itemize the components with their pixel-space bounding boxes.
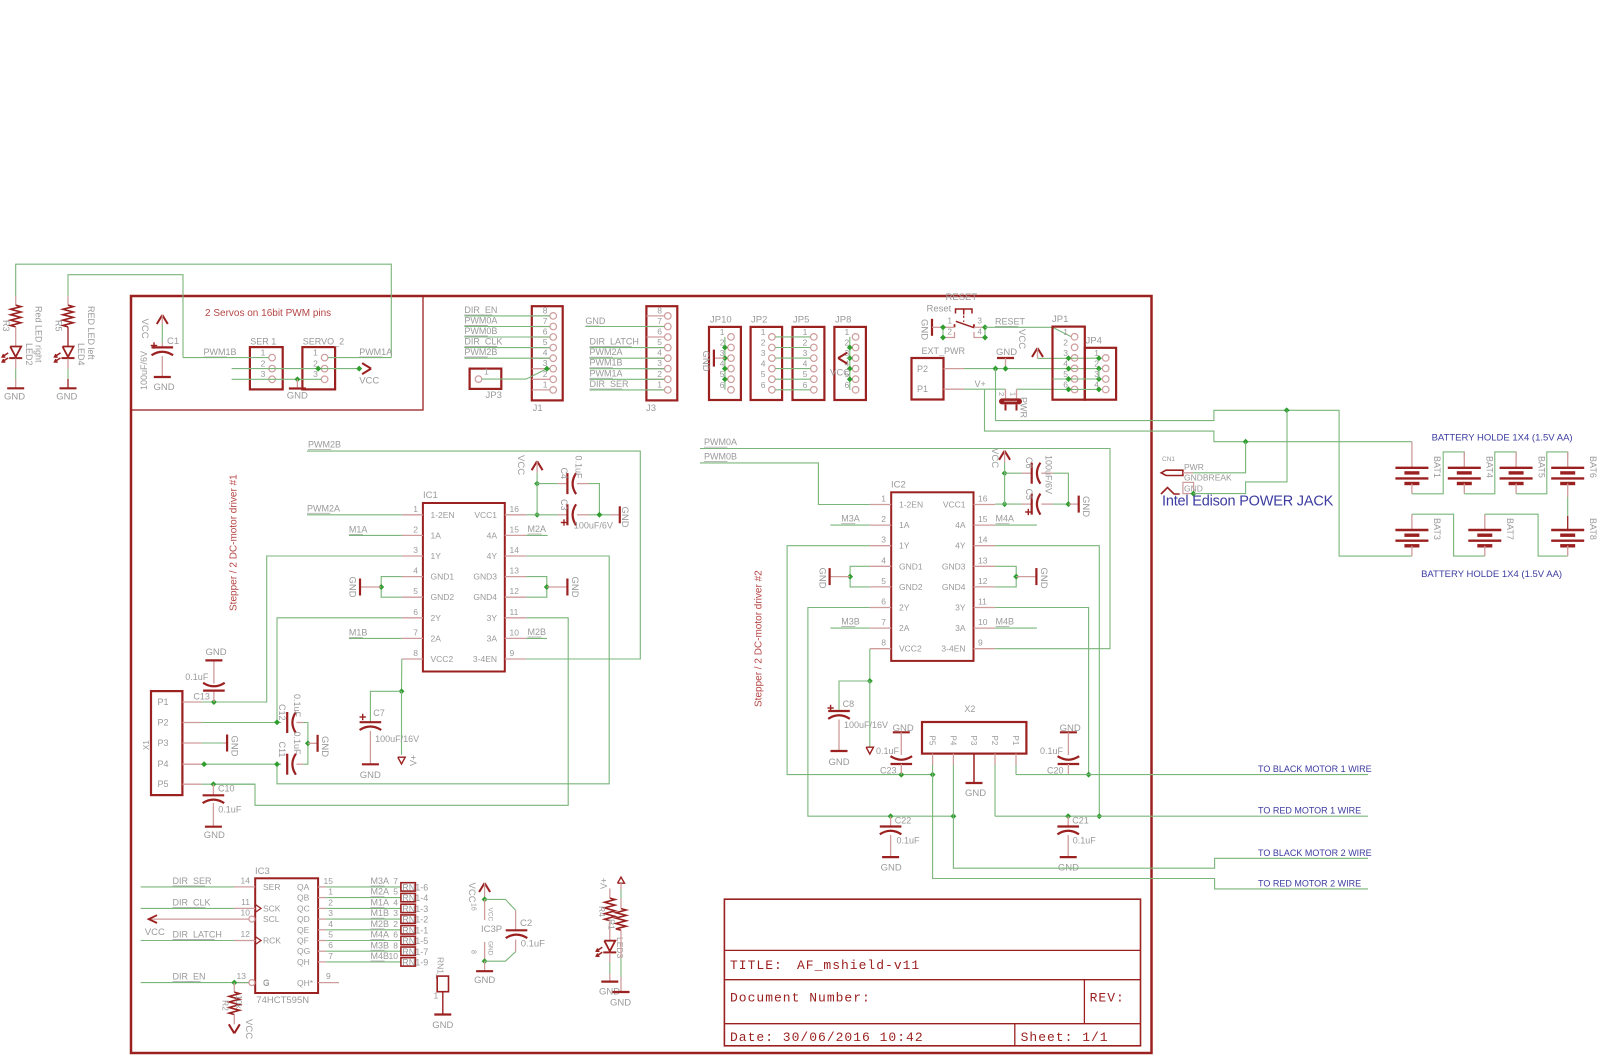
svg-text:TO BLACK MOTOR 2 WIRE: TO BLACK MOTOR 2 WIRE <box>1258 848 1372 858</box>
svg-text:100uF/16V: 100uF/16V <box>375 734 419 744</box>
schematic frame <box>131 296 1152 1053</box>
ground C5 C6 <box>1069 503 1079 505</box>
svg-text:6: 6 <box>328 940 333 950</box>
wire line2 to red motor 1 <box>995 815 1368 817</box>
svg-text:GNDBREAK: GNDBREAK <box>1184 473 1232 483</box>
svg-text:8: 8 <box>543 305 548 315</box>
wire M4A to RN1 <box>326 940 401 942</box>
svg-text:M1B: M1B <box>371 908 390 918</box>
ic IC2 <box>891 492 973 661</box>
svg-text:13: 13 <box>978 555 988 565</box>
svg-text:Stepper / 2 DC-motor driver #1: Stepper / 2 DC-motor driver #1 <box>229 474 240 611</box>
wire X2 P5 to red motor 2 <box>933 775 1368 889</box>
svg-text:12: 12 <box>510 586 520 596</box>
wire V+ net to batteries <box>985 389 1412 442</box>
svg-text:1: 1 <box>720 327 725 337</box>
wire BAT7 top link <box>1485 514 1568 556</box>
svg-text:0.1uF: 0.1uF <box>1073 836 1097 846</box>
wire GND net to batteries <box>996 369 1412 556</box>
svg-text:0.1uF: 0.1uF <box>574 456 584 480</box>
svg-text:1: 1 <box>413 504 418 514</box>
svg-text:V+: V+ <box>599 878 609 889</box>
svg-text:4: 4 <box>657 348 662 358</box>
svg-text:P3: P3 <box>969 736 978 746</box>
resistor R5 <box>67 296 69 305</box>
wire X1 P2 <box>202 722 281 724</box>
battery BAT7 <box>1484 514 1486 530</box>
svg-text:1A: 1A <box>431 530 442 540</box>
svg-text:6: 6 <box>413 607 418 617</box>
svg-text:C11: C11 <box>277 742 287 758</box>
svg-text:14: 14 <box>241 876 251 886</box>
ground IC1 pins13-12 <box>526 577 546 598</box>
svg-text:GND: GND <box>610 998 631 1009</box>
svg-text:4Y: 4Y <box>955 541 966 551</box>
svg-text:PWM1B: PWM1B <box>590 358 623 368</box>
svg-text:8: 8 <box>393 940 398 950</box>
wire IC1 1Y to X1 P1 <box>202 556 402 702</box>
svg-text:RN1-7: RN1-7 <box>402 947 428 957</box>
svg-text:1: 1 <box>484 367 489 377</box>
wire GND row to JP1 pin4 <box>964 368 1099 370</box>
svg-text:2 Servos on 16bit PWM pins: 2 Servos on 16bit PWM pins <box>205 308 331 319</box>
svg-text:M1A: M1A <box>371 898 390 908</box>
svg-text:3-4EN: 3-4EN <box>473 654 497 664</box>
svg-text:JP8: JP8 <box>835 315 851 326</box>
svg-text:GND: GND <box>829 757 850 768</box>
svg-text:2Y: 2Y <box>431 613 442 623</box>
svg-text:GND: GND <box>4 392 25 403</box>
svg-text:3: 3 <box>978 317 983 326</box>
svg-text:GND: GND <box>154 382 175 393</box>
svg-text:GND4: GND4 <box>942 582 966 592</box>
svg-text:8: 8 <box>470 950 477 954</box>
svg-text:10: 10 <box>241 908 251 918</box>
svg-text:C20: C20 <box>1047 766 1064 776</box>
svg-text:GND: GND <box>919 319 930 340</box>
svg-text:5: 5 <box>803 369 808 379</box>
vcc node IC2 pin16 <box>1002 501 1008 507</box>
connector JP3 <box>470 369 502 389</box>
svg-text:DIR_CLK: DIR_CLK <box>173 897 211 907</box>
ground IC2 pins4-5 <box>850 566 870 587</box>
svg-text:REV:: REV: <box>1090 991 1125 1006</box>
svg-text:P2: P2 <box>158 718 169 728</box>
connector EXT_PWR <box>912 358 944 400</box>
svg-text:PWM0B: PWM0B <box>464 326 497 336</box>
svg-text:2: 2 <box>997 392 1006 396</box>
svg-text:4: 4 <box>978 328 983 337</box>
svg-text:CN1: CN1 <box>1162 456 1175 463</box>
title block <box>724 899 1140 1046</box>
svg-text:5: 5 <box>657 337 662 347</box>
battery BAT4 <box>1448 467 1481 469</box>
svg-text:BAT5: BAT5 <box>1536 456 1546 478</box>
svg-text:VCC: VCC <box>515 455 526 475</box>
ground IC3P <box>476 970 493 972</box>
svg-text:SER 1: SER 1 <box>250 336 276 346</box>
wire IC2 4Y to line2 <box>995 546 1099 817</box>
svg-text:6: 6 <box>393 930 398 940</box>
ground IC2 pins13-12 <box>995 566 1016 587</box>
svg-text:5: 5 <box>413 586 418 596</box>
LED LED2 <box>10 347 21 357</box>
svg-text:BATTERY HOLDE 1X4 (1.5V AA): BATTERY HOLDE 1X4 (1.5V AA) <box>1421 569 1562 580</box>
ground X1 P3 <box>226 735 228 752</box>
svg-text:C1: C1 <box>167 336 179 347</box>
svg-text:3: 3 <box>803 348 808 358</box>
svg-text:100uF/6V: 100uF/6V <box>139 351 149 390</box>
svg-text:5: 5 <box>543 337 548 347</box>
svg-text:SCL: SCL <box>263 914 280 924</box>
svg-text:GND: GND <box>1080 496 1091 517</box>
svg-text:QD: QD <box>297 914 310 924</box>
vcc node IC1 pin16 <box>534 512 540 518</box>
svg-text:6: 6 <box>720 380 725 390</box>
svg-text:9: 9 <box>326 971 331 981</box>
ground C22 <box>882 856 899 858</box>
svg-text:R3: R3 <box>1 320 11 332</box>
svg-text:GND: GND <box>965 788 986 799</box>
svg-text:J3: J3 <box>646 403 656 414</box>
svg-text:PWM0A: PWM0A <box>464 316 497 326</box>
svg-text:6: 6 <box>803 380 808 390</box>
wire BAT6-BAT8 <box>1567 484 1569 498</box>
svg-text:1: 1 <box>881 494 886 504</box>
ground servo <box>296 379 298 388</box>
svg-text:C4: C4 <box>559 468 569 480</box>
ic IC3 74HCT595N <box>255 878 318 993</box>
wire IC2 2Y to line2 <box>808 608 954 817</box>
svg-text:C3: C3 <box>559 499 569 511</box>
svg-text:16: 16 <box>470 903 477 911</box>
svg-text:TO RED MOTOR 1 WIRE: TO RED MOTOR 1 WIRE <box>1258 806 1361 816</box>
wire X1 P5 <box>202 783 255 785</box>
svg-text:Reset: Reset <box>927 304 952 315</box>
connector JP2 <box>751 327 783 400</box>
svg-text:16: 16 <box>978 494 988 504</box>
svg-text:VCC: VCC <box>466 883 477 903</box>
wire IC1 3Y to X1 P5 <box>213 618 568 806</box>
svg-text:PWM2A: PWM2A <box>307 503 340 513</box>
svg-text:C8: C8 <box>843 699 855 709</box>
svg-text:10: 10 <box>389 951 399 961</box>
svg-text:X1: X1 <box>142 740 151 750</box>
svg-text:GND: GND <box>487 941 494 956</box>
capacitor C3 <box>537 514 558 516</box>
svg-text:1: 1 <box>328 887 333 897</box>
svg-text:4A: 4A <box>487 530 498 540</box>
svg-text:DIR_SER: DIR_SER <box>590 379 630 389</box>
svg-text:P3: P3 <box>158 738 169 748</box>
svg-text:LED4: LED4 <box>76 343 86 366</box>
svg-text:LED3: LED3 <box>615 937 625 959</box>
svg-text:QE: QE <box>297 925 310 935</box>
svg-text:J1: J1 <box>533 403 543 414</box>
svg-text:M2B: M2B <box>528 627 547 637</box>
svg-text:SER: SER <box>263 882 280 892</box>
vcc symbol V+ triangle IC1 <box>398 757 405 764</box>
svg-text:M4B: M4B <box>371 951 390 961</box>
svg-text:V+: V+ <box>975 379 986 389</box>
wire BAT5-BAT6 <box>1516 452 1568 494</box>
svg-text:QH: QH <box>297 957 310 967</box>
wire PWM1A from SERVO_2 pin1 <box>328 357 391 359</box>
svg-text:P1: P1 <box>917 384 928 394</box>
svg-text:2: 2 <box>413 524 418 534</box>
svg-text:PWM2B: PWM2B <box>308 440 341 450</box>
jumper PWR <box>1005 389 1007 398</box>
wire X2 P1 <box>1015 754 1017 765</box>
svg-text:10: 10 <box>510 627 520 637</box>
svg-text:IC3: IC3 <box>255 866 270 877</box>
svg-text:RED LED left: RED LED left <box>86 306 96 360</box>
svg-text:PWM0B: PWM0B <box>704 452 737 462</box>
svg-text:VCC: VCC <box>1016 329 1027 349</box>
svg-text:2: 2 <box>761 338 766 348</box>
svg-text:R4: R4 <box>597 906 607 917</box>
svg-text:DIR_CLK: DIR_CLK <box>464 337 502 347</box>
svg-text:RN1-4: RN1-4 <box>402 893 428 903</box>
resistor network element RN1-1 <box>401 926 416 934</box>
wire reset pin links <box>942 327 944 337</box>
svg-text:IC3P: IC3P <box>481 924 502 935</box>
svg-text:1-2EN: 1-2EN <box>431 510 455 520</box>
svg-text:2: 2 <box>948 328 953 337</box>
svg-text:1: 1 <box>434 991 439 1001</box>
svg-text:3A: 3A <box>487 633 498 643</box>
svg-text:GND: GND <box>1038 568 1049 589</box>
svg-text:M3A: M3A <box>841 514 860 524</box>
connector J3 <box>646 306 677 400</box>
svg-text:TO BLACK MOTOR 1 WIRE: TO BLACK MOTOR 1 WIRE <box>1258 764 1372 774</box>
svg-text:0.1uF: 0.1uF <box>292 732 302 756</box>
battery BAT1 <box>1411 442 1413 468</box>
wire X1 P4 <box>202 763 281 765</box>
capacitor C21 <box>1067 816 1069 826</box>
svg-text:PWM2A: PWM2A <box>590 347 623 357</box>
svg-text:14: 14 <box>510 545 520 555</box>
wires JP1-JP4 rows <box>1066 355 1072 361</box>
svg-text:RCK: RCK <box>263 936 281 946</box>
svg-text:Stepper / 2 DC-motor driver #2: Stepper / 2 DC-motor driver #2 <box>754 570 765 707</box>
svg-text:GND: GND <box>319 736 330 757</box>
wire M3B to RN1 <box>326 950 401 952</box>
svg-text:100uF/6V: 100uF/6V <box>574 521 613 531</box>
ground C7 <box>362 763 379 765</box>
svg-text:PWM0A: PWM0A <box>704 437 737 447</box>
wire M1B to RN1 <box>326 918 401 920</box>
svg-text:M3B: M3B <box>371 940 390 950</box>
svg-text:0.1uF: 0.1uF <box>521 939 545 950</box>
svg-text:C12: C12 <box>277 704 287 721</box>
svg-text:14: 14 <box>978 535 988 545</box>
wire X1 P3 to gnd <box>202 742 224 744</box>
svg-text:GND: GND <box>700 351 711 372</box>
resistor R3 <box>15 296 17 305</box>
svg-text:3: 3 <box>657 358 662 368</box>
wire JP3 to J1 pin3 <box>482 369 550 379</box>
svg-text:C21: C21 <box>1072 816 1089 826</box>
svg-text:GND: GND <box>817 568 828 589</box>
battery BAT5 <box>1500 467 1533 469</box>
svg-text:GND3: GND3 <box>473 572 497 582</box>
svg-text:DIR_EN: DIR_EN <box>464 305 497 315</box>
svg-text:3A: 3A <box>955 623 966 633</box>
wire IC2 VCC2 to C8 and V+ <box>869 649 871 681</box>
svg-text:VCC: VCC <box>359 375 379 386</box>
svg-text:GND2: GND2 <box>431 592 455 602</box>
connector J1 <box>532 306 563 400</box>
svg-text:GND: GND <box>204 830 225 841</box>
svg-text:VCC: VCC <box>243 1019 254 1039</box>
svg-text:GND: GND <box>360 770 381 781</box>
svg-text:M4B: M4B <box>996 617 1015 627</box>
svg-text:0.1uF: 0.1uF <box>292 694 302 718</box>
svg-text:13: 13 <box>237 971 247 981</box>
svg-text:JP3: JP3 <box>486 390 502 401</box>
svg-text:PWM1B: PWM1B <box>204 347 237 357</box>
wire X2 P4 to black motor 2 <box>953 816 1368 868</box>
svg-text:5: 5 <box>393 887 398 897</box>
svg-text:15: 15 <box>978 514 988 524</box>
capacitor C5 <box>1005 503 1022 505</box>
svg-text:RN1-9: RN1-9 <box>402 958 428 968</box>
svg-text:GND3: GND3 <box>942 561 966 571</box>
capacitor C11 <box>286 754 288 775</box>
svg-text:M2A: M2A <box>528 524 547 534</box>
svg-text:C6: C6 <box>1024 457 1034 469</box>
wire servo pin2 rail <box>232 368 360 370</box>
svg-text:GND4: GND4 <box>473 592 497 602</box>
svg-text:P5: P5 <box>928 736 937 746</box>
svg-text:GND1: GND1 <box>899 561 923 571</box>
svg-text:C7: C7 <box>373 708 385 718</box>
wires JP2 to JP5 <box>775 336 810 338</box>
svg-text:GND: GND <box>585 316 606 326</box>
svg-text:6: 6 <box>844 380 849 390</box>
svg-text:7: 7 <box>393 876 398 886</box>
ground C10 <box>205 826 222 828</box>
svg-text:3: 3 <box>261 369 266 379</box>
svg-text:2: 2 <box>393 919 398 929</box>
wire X1 P1 <box>202 701 267 703</box>
svg-text:VCC1: VCC1 <box>474 510 497 520</box>
capacitor C8 <box>827 707 833 709</box>
svg-text:QC: QC <box>297 903 310 913</box>
wire IC1 2Y to X1 P2 <box>277 618 402 723</box>
svg-text:VCC: VCC <box>145 927 165 938</box>
svg-text:JP2: JP2 <box>751 315 767 326</box>
svg-text:SCK: SCK <box>263 903 281 913</box>
wire IC1 VCC2 to C7 and V+ <box>401 659 403 691</box>
wire PWM1B to SER1 pin1 <box>183 357 269 359</box>
svg-text:M1B: M1B <box>349 628 368 638</box>
svg-text:2: 2 <box>881 514 886 524</box>
svg-text:JP10: JP10 <box>710 315 732 326</box>
wire JP10 gnd rail <box>724 337 726 390</box>
svg-text:3Y: 3Y <box>955 603 966 613</box>
wire VCC to JP1 pin3 <box>1038 357 1099 359</box>
svg-text:QG: QG <box>297 946 310 956</box>
svg-text:15: 15 <box>324 876 334 886</box>
capacitor C13 <box>213 691 215 702</box>
svg-text:100uF/16V: 100uF/16V <box>844 720 888 730</box>
svg-text:PWM1A: PWM1A <box>359 347 392 357</box>
svg-text:M1A: M1A <box>349 525 368 535</box>
svg-text:5: 5 <box>761 369 766 379</box>
svg-text:0.1uF: 0.1uF <box>876 746 900 756</box>
svg-text:C23: C23 <box>880 766 897 776</box>
wire X2 P4 <box>952 754 954 765</box>
resistor network element RN1-3 <box>401 904 416 912</box>
svg-text:M4A: M4A <box>371 930 390 940</box>
LED LED3 <box>604 941 615 952</box>
LED LED4 <box>63 347 74 357</box>
capacitor C7 <box>360 716 366 718</box>
svg-text:0.1uF: 0.1uF <box>1040 746 1064 756</box>
svg-text:VCC2: VCC2 <box>431 654 454 664</box>
svg-text:GND: GND <box>229 736 240 757</box>
svg-text:2: 2 <box>657 369 662 379</box>
svg-text:4: 4 <box>881 555 886 565</box>
svg-text:1: 1 <box>657 379 662 389</box>
svg-text:5: 5 <box>881 576 886 586</box>
connector JP5 <box>793 327 825 400</box>
svg-text:GND1: GND1 <box>431 572 455 582</box>
svg-text:TO RED MOTOR 2 WIRE: TO RED MOTOR 2 WIRE <box>1258 879 1361 889</box>
svg-text:PWM1A: PWM1A <box>590 368 623 378</box>
svg-text:DIR_LATCH: DIR_LATCH <box>590 337 639 347</box>
svg-text:4: 4 <box>413 566 418 576</box>
svg-text:DIR_EN: DIR_EN <box>173 972 206 982</box>
svg-text:6: 6 <box>657 327 662 337</box>
ground X2 P3 <box>973 754 975 783</box>
servo sub-box <box>131 296 423 410</box>
svg-text:6: 6 <box>761 380 766 390</box>
svg-text:7: 7 <box>543 316 548 326</box>
ground for RESET <box>931 319 933 336</box>
svg-text:JP4: JP4 <box>1086 336 1102 347</box>
wire M4B to RN1 <box>326 961 401 963</box>
svg-text:1: 1 <box>761 327 766 337</box>
vcc arrow right servo <box>362 363 371 369</box>
svg-text:3: 3 <box>413 545 418 555</box>
svg-text:BAT3: BAT3 <box>1432 518 1442 540</box>
svg-text:R1: R1 <box>607 919 617 930</box>
wire BAT1-BAT4 <box>1412 452 1464 494</box>
svg-text:VCC2: VCC2 <box>899 644 922 654</box>
wire line1 to black motor 1 <box>1016 774 1368 776</box>
ground RN1 <box>434 1013 451 1015</box>
svg-text:R2: R2 <box>221 1000 231 1011</box>
ground near EXT_PWR <box>997 357 1014 359</box>
connector JP1 <box>1053 327 1085 400</box>
svg-text:RN1-3: RN1-3 <box>402 904 428 914</box>
svg-text:BAT7: BAT7 <box>1505 518 1515 540</box>
svg-text:VCC: VCC <box>487 908 494 922</box>
svg-text:EXT_PWR: EXT_PWR <box>922 346 966 356</box>
svg-text:VCC1: VCC1 <box>943 500 966 510</box>
svg-text:6: 6 <box>543 327 548 337</box>
svg-text:JP5: JP5 <box>793 315 809 326</box>
svg-text:9: 9 <box>978 638 983 648</box>
ground for C1 <box>154 376 171 378</box>
svg-text:11: 11 <box>978 597 987 607</box>
svg-text:TITLE:: TITLE: <box>730 958 783 973</box>
svg-text:3: 3 <box>393 908 398 918</box>
svg-text:0.1uF: 0.1uF <box>897 836 921 846</box>
